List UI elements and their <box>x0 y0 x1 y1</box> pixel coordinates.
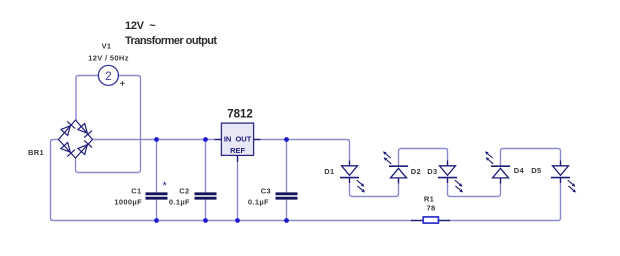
svg-text:R1: R1 <box>424 195 434 204</box>
wire C1 branch <box>156 140 158 221</box>
LED D5 <box>551 161 576 193</box>
bridge diode top-left <box>61 121 75 135</box>
svg-text:*: * <box>163 180 168 192</box>
regulator pin stub OUT <box>254 139 261 141</box>
junction bottom rail at C2 <box>203 218 208 223</box>
svg-text:0.1µF: 0.1µF <box>169 198 190 207</box>
capacitor C2 <box>195 194 217 198</box>
wire bridge left vertex to ground rail (bottom rail to R1) <box>51 140 424 221</box>
junction top rail at C3 <box>284 137 289 142</box>
svg-text:D5: D5 <box>531 166 541 175</box>
svg-text:D3: D3 <box>427 167 437 176</box>
wire regulator REF to bottom rail <box>237 156 239 221</box>
bridge rectifier BR1 diamond body <box>59 120 93 158</box>
junction top rail at C2 <box>203 137 208 142</box>
bridge diode bottom-left <box>61 143 75 157</box>
svg-text:BR1: BR1 <box>28 148 44 157</box>
svg-text:1000µF: 1000µF <box>114 198 142 207</box>
svg-text:D4: D4 <box>514 166 525 175</box>
capacitor C1 <box>146 194 168 198</box>
svg-text:IN: IN <box>224 135 232 144</box>
svg-text:2: 2 <box>105 71 111 83</box>
svg-text:C3: C3 <box>261 187 271 196</box>
wire top rail bridge right vertex to regulator IN <box>93 139 222 141</box>
regulator pin stub IN <box>215 139 222 141</box>
junction bottom rail at REF <box>235 218 240 223</box>
svg-text:7812: 7812 <box>227 109 253 121</box>
svg-text:D1: D1 <box>324 167 334 176</box>
regulator pin stub REF <box>237 155 239 162</box>
LED D4 <box>485 151 510 183</box>
svg-text:V1: V1 <box>102 42 112 51</box>
svg-text:78: 78 <box>426 204 435 213</box>
svg-text:C2: C2 <box>179 187 189 196</box>
voltage source V1 <box>98 65 118 85</box>
resistor R1 <box>411 217 450 223</box>
wire D4 top to D5 top <box>501 149 561 167</box>
wire V1 right lead down and across to bridge bottom <box>76 76 141 173</box>
junction bottom rail at C1 <box>154 218 159 223</box>
regulator U1 7812 body <box>221 123 253 155</box>
svg-text:+: + <box>119 79 125 90</box>
wire V1 left lead to bridge top <box>76 76 98 121</box>
capacitor C3 <box>276 194 298 198</box>
svg-text:0.1µF: 0.1µF <box>248 198 269 207</box>
wire C2 branch <box>205 140 207 221</box>
wire D1 bottom to D2 bottom <box>350 178 399 197</box>
wire D2 top to D3 top <box>399 149 448 167</box>
bridge diode top-right <box>78 124 92 138</box>
svg-text:REF: REF <box>230 146 245 155</box>
junction top rail at C1 <box>154 137 159 142</box>
wire bottom rail from R1 to D5 bottom <box>438 179 561 221</box>
LED D2 <box>383 151 408 183</box>
wire regulator OUT to D1 top <box>254 140 350 166</box>
LED D3 <box>438 161 463 193</box>
LED D1 <box>340 161 365 193</box>
svg-text:12V / 50Hz: 12V / 50Hz <box>88 54 129 63</box>
svg-text:C1: C1 <box>131 187 141 196</box>
wire D3 bottom to D4 bottom <box>448 178 501 197</box>
svg-text:Transformer output: Transformer output <box>125 35 217 47</box>
junction bottom rail at C3 <box>284 218 289 223</box>
svg-text:12V ~: 12V ~ <box>125 20 156 32</box>
wire C3 branch <box>286 140 288 221</box>
bridge diode bottom-right <box>78 140 92 154</box>
svg-text:D2: D2 <box>411 167 421 176</box>
svg-text:OUT: OUT <box>235 135 251 144</box>
